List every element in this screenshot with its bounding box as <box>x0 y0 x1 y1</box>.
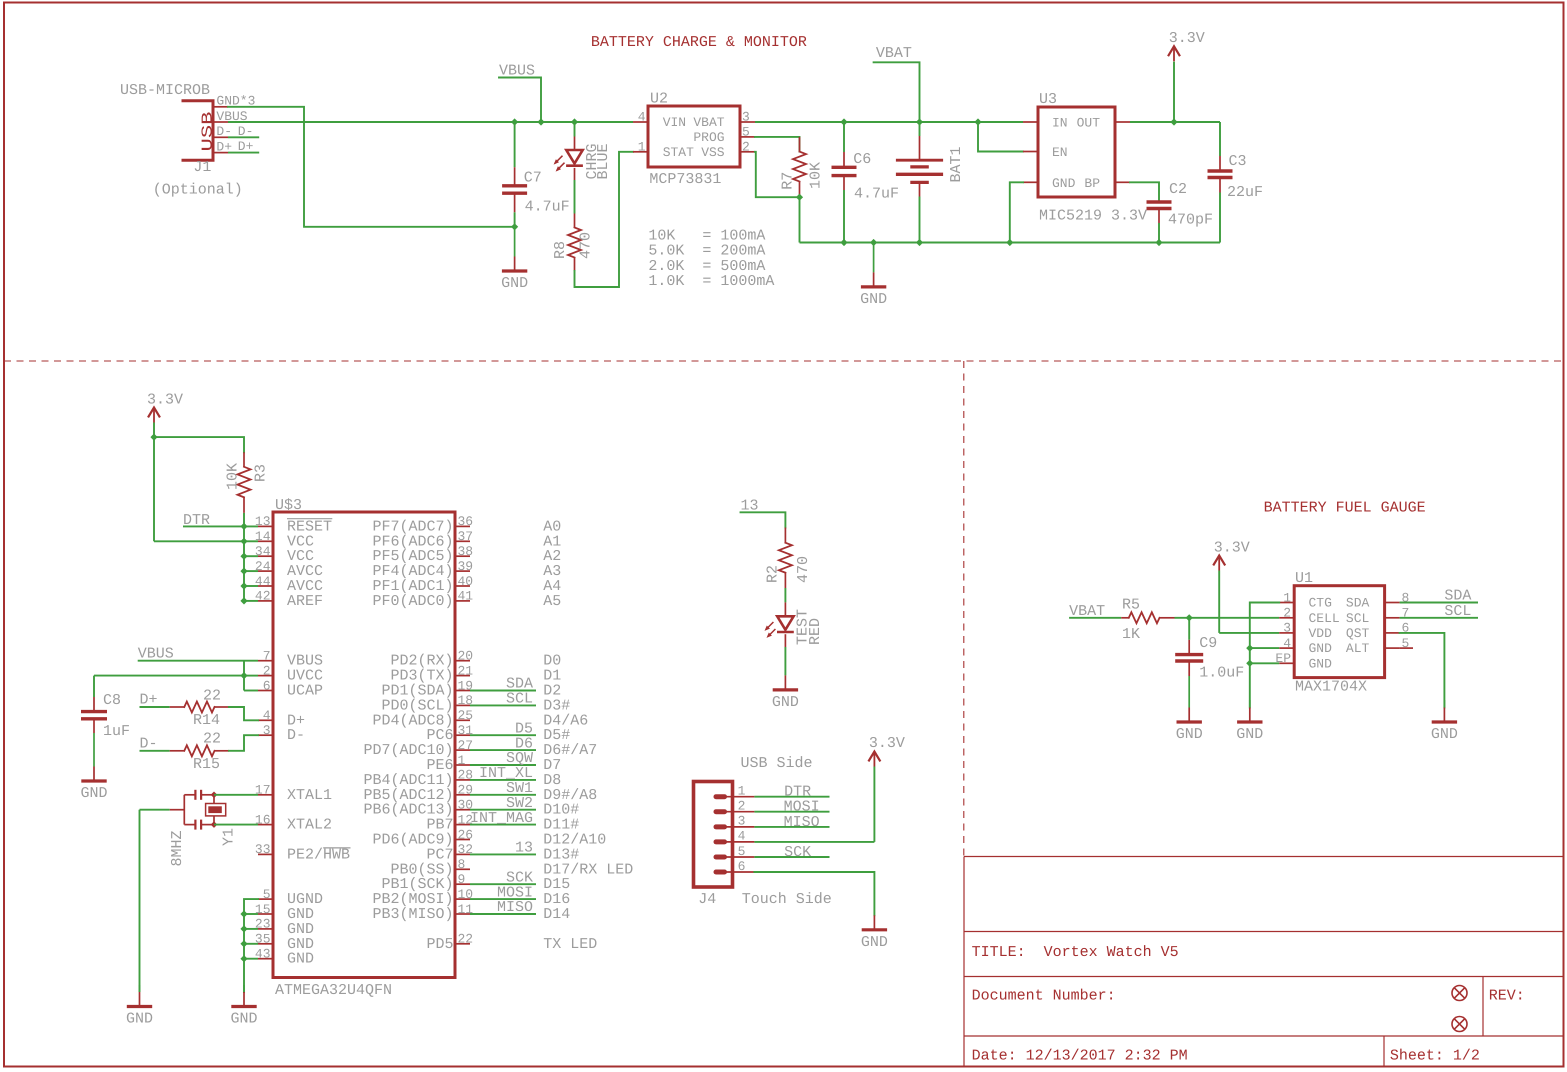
svg-text:6: 6 <box>738 859 746 874</box>
LED CHRG BLUE <box>574 122 576 137</box>
wire R8 to U2 STAT pin1 <box>575 152 634 287</box>
title block crossed circles <box>1452 986 1467 1001</box>
junction Y1 XTAL1 <box>211 792 218 799</box>
svg-text:USB-MICROB: USB-MICROB <box>120 82 210 99</box>
battery BAT1 <box>919 122 921 136</box>
svg-text:REV:: REV: <box>1489 988 1525 1005</box>
svg-text:5: 5 <box>263 887 271 902</box>
U$3 pin 10 PB2(MOSI) <box>455 898 470 900</box>
junction VBUS/C7 <box>511 118 518 125</box>
svg-text:CELL: CELL <box>1309 611 1340 626</box>
svg-text:13: 13 <box>515 840 533 857</box>
U$3 pin 39 PF4(ADC4) <box>455 570 470 572</box>
svg-text:MCP73831: MCP73831 <box>649 171 721 188</box>
svg-text:VSS: VSS <box>701 145 725 160</box>
svg-text:RED: RED <box>807 618 824 645</box>
U1 pin EP <box>1279 662 1294 664</box>
U$3 pin 15 GND <box>258 913 273 915</box>
svg-text:MISO: MISO <box>784 814 820 831</box>
crystal Y1 8MHZ <box>184 794 195 796</box>
svg-text:XTAL1: XTAL1 <box>287 787 332 804</box>
svg-text:EN: EN <box>1052 145 1068 160</box>
svg-text:R3: R3 <box>253 464 270 482</box>
junction 3.3V/R3 <box>150 434 157 441</box>
wire net 13 to R2 <box>741 512 786 527</box>
section divider vertical dashed <box>963 361 965 857</box>
ground below battery bus <box>873 243 875 273</box>
svg-text:GND: GND <box>861 934 888 951</box>
svg-text:INT_MAG: INT_MAG <box>470 810 533 827</box>
svg-text:20: 20 <box>458 649 474 664</box>
junction GND bus <box>240 925 247 932</box>
svg-text:VDD: VDD <box>1309 626 1333 641</box>
svg-text:USB: USB <box>199 112 216 152</box>
svg-text:1: 1 <box>1283 590 1291 605</box>
U$3 pin 41 PF0(ADC0) <box>455 600 470 602</box>
U3 pin EN <box>1023 151 1038 153</box>
U1 pin 2 <box>1279 617 1294 619</box>
RESET overline <box>287 518 332 520</box>
wire LED to ground <box>784 647 786 675</box>
junction Y1 XTAL2 <box>211 821 218 828</box>
junction 3.3V takeoff <box>1170 118 1177 125</box>
svg-text:MISO: MISO <box>497 899 533 916</box>
svg-text:IN: IN <box>1052 116 1068 131</box>
U$3 pin 27 PD7(ADC10) <box>455 749 470 751</box>
svg-text:U$3: U$3 <box>275 497 302 514</box>
svg-text:22uF: 22uF <box>1227 184 1263 201</box>
svg-text:3.3V: 3.3V <box>147 392 183 409</box>
svg-text:13: 13 <box>255 514 271 529</box>
svg-text:40: 40 <box>458 574 474 589</box>
svg-text:4: 4 <box>263 708 271 723</box>
resistor R5 1K <box>1121 617 1129 619</box>
svg-text:37: 37 <box>458 529 474 544</box>
svg-text:C6: C6 <box>853 151 871 168</box>
IC U3 MIC5219 <box>1038 107 1115 197</box>
title block outline <box>964 856 1563 858</box>
wire crystal common to ground <box>140 809 170 811</box>
wire U3 BP to C2 <box>1130 182 1159 201</box>
svg-text:R7: R7 <box>780 172 797 190</box>
U$3 pin 18 PD0(SCL) <box>455 704 470 706</box>
svg-text:QST: QST <box>1346 626 1370 641</box>
U$3 pin 11 PB3(MISO) <box>455 913 470 915</box>
wire U2 VSS to R7 bottom <box>755 152 800 197</box>
U$3 pin 24 AVCC <box>258 570 273 572</box>
svg-text:D-: D- <box>287 727 305 744</box>
resistor R15 22 <box>170 750 185 752</box>
svg-text:1.0K = 1000mA: 1.0K = 1000mA <box>648 273 774 290</box>
junction C7 bottom / GND*3 wire <box>511 223 518 230</box>
resistor R14 22 <box>170 706 185 708</box>
J1 pin D- <box>213 136 228 138</box>
J4 pin 4 <box>716 839 725 844</box>
U$3 pin 1 PE6 <box>455 764 470 766</box>
wire net 13 <box>470 853 536 855</box>
svg-text:R8: R8 <box>552 241 569 259</box>
svg-text:GND: GND <box>1176 726 1203 743</box>
svg-text:2: 2 <box>1283 606 1291 621</box>
junction C2 bottom <box>1155 239 1162 246</box>
U1 pin 7 <box>1385 617 1400 619</box>
svg-text:38: 38 <box>458 544 474 559</box>
U2 pin 5 PROG <box>740 136 755 138</box>
resistor R3 10K <box>243 452 245 467</box>
ground below C9 <box>1188 676 1190 708</box>
svg-text:5: 5 <box>738 844 746 859</box>
svg-text:GND: GND <box>860 291 887 308</box>
svg-text:R2: R2 <box>764 565 781 583</box>
svg-text:VBAT: VBAT <box>876 45 912 62</box>
svg-text:33: 33 <box>255 842 271 857</box>
svg-text:9: 9 <box>458 872 466 887</box>
svg-text:GND: GND <box>80 785 107 802</box>
U$3 pin 26 PD6(ADC9) <box>455 839 470 841</box>
junction GND bus <box>240 910 247 917</box>
wire LED to R8 <box>574 180 576 214</box>
svg-text:3: 3 <box>263 723 271 738</box>
svg-text:1uF: 1uF <box>103 723 130 740</box>
svg-text:USB Side: USB Side <box>741 755 813 772</box>
svg-text:D+: D+ <box>140 692 158 709</box>
U$3 pin 23 GND <box>258 928 273 930</box>
wire D+ to R14 <box>140 706 170 708</box>
capacitor C2 470pF <box>1158 201 1160 202</box>
junction VBUS/LED <box>571 118 578 125</box>
junction VCC bus <box>240 582 247 589</box>
svg-text:10K: 10K <box>224 463 241 490</box>
U$3 pin 36 PF7(ADC7) <box>455 525 470 527</box>
svg-text:J1: J1 <box>193 159 211 176</box>
svg-text:22: 22 <box>203 731 221 748</box>
svg-text:1: 1 <box>458 753 466 768</box>
svg-text:R5: R5 <box>1122 597 1140 614</box>
svg-text:C2: C2 <box>1169 181 1187 198</box>
ground below C8 <box>93 733 95 767</box>
J1 pin VBUS <box>213 121 228 123</box>
wire D- to R15 <box>140 750 170 752</box>
wire net MISO <box>470 913 536 915</box>
svg-text:SCL: SCL <box>506 691 533 708</box>
svg-text:D-: D- <box>238 124 254 139</box>
IC U$3 ATMEGA32U4QFN body <box>273 512 455 978</box>
svg-text:D14: D14 <box>543 906 570 923</box>
U$3 pin 34 VCC <box>258 555 273 557</box>
capacitor C9 1.0uF <box>1188 618 1190 640</box>
junction GND bus <box>240 940 247 947</box>
svg-text:MAX1704X: MAX1704X <box>1295 678 1367 695</box>
U$3 pin 8 PB0(SS) <box>455 868 470 870</box>
U$3 pin 20 PD2(RX) <box>455 660 470 662</box>
junction GND bus <box>240 955 247 962</box>
svg-text:GND: GND <box>287 951 314 968</box>
wire VBUS to pin7 <box>138 660 258 662</box>
wire net D6 <box>470 749 536 751</box>
connector J4 <box>694 782 733 888</box>
svg-text:SDA: SDA <box>1346 596 1370 611</box>
svg-text:Y1: Y1 <box>221 828 238 846</box>
svg-text:3.3V: 3.3V <box>1169 30 1205 47</box>
svg-text:Touch Side: Touch Side <box>742 891 832 908</box>
wire net INT_MAG <box>470 824 536 826</box>
wire R2 to LED <box>784 588 786 602</box>
wire net INT_XL <box>470 779 536 781</box>
resistor R2 470 <box>784 528 786 543</box>
svg-text:VBAT: VBAT <box>693 115 724 130</box>
svg-text:5: 5 <box>742 125 750 140</box>
U$3 pin 33 PE2/HWB <box>258 853 273 855</box>
junction C6 top <box>840 118 847 125</box>
wire net D5 <box>470 734 536 736</box>
svg-text:Date: 12/13/2017 2:32 PM: Date: 12/13/2017 2:32 PM <box>972 1048 1188 1065</box>
U1 pin 4 <box>1279 647 1294 649</box>
svg-text:22: 22 <box>203 687 221 704</box>
ground below TEST LED <box>784 674 786 676</box>
U$3 pin 30 PB6(ADC13) <box>455 809 470 811</box>
U$3 pin 17 XTAL1 <box>258 794 273 796</box>
wire U3 GND to bus <box>1010 182 1023 242</box>
IC U1 MAX1704X <box>1294 586 1384 678</box>
svg-text:41: 41 <box>458 589 474 604</box>
wire U2 VBAT to U3 IN <box>755 121 1023 123</box>
svg-text:MIC5219 3.3V: MIC5219 3.3V <box>1039 208 1147 225</box>
J4 pin 6 <box>716 870 725 875</box>
U1 pin 8 <box>1385 602 1400 604</box>
U$3 pin 9 PB1(SCK) <box>455 883 470 885</box>
wire R15 to pin D- <box>229 735 258 751</box>
wire net SQW <box>470 764 536 766</box>
wire DTR to RESET <box>183 525 258 527</box>
U2 pin 1 STAT <box>633 151 648 153</box>
ground below U1 <box>1249 700 1251 708</box>
svg-text:1: 1 <box>738 784 746 799</box>
HWB overline <box>323 847 350 849</box>
J1 pin GND*3 <box>213 106 228 108</box>
U$3 pin 19 PD1(SDA) <box>455 690 470 692</box>
U1 pin 3 <box>1279 632 1294 634</box>
U$3 pin 7 VBUS <box>258 660 273 662</box>
junction VCC bus <box>240 553 247 560</box>
wire net SDA (U1) <box>1400 602 1478 604</box>
U$3 pin 42 AREF <box>258 600 273 602</box>
J4 pin 5 <box>716 855 725 860</box>
U$3 pin 32 PC7 <box>455 853 470 855</box>
U$3 pin 5 UGND <box>258 898 273 900</box>
junction U1 GND pin4 <box>1246 645 1253 652</box>
svg-text:GND: GND <box>126 1011 153 1028</box>
svg-text:470pF: 470pF <box>1168 212 1213 229</box>
U1 pin 5 <box>1385 647 1400 649</box>
junction VCC bus <box>240 538 247 545</box>
svg-text:GND: GND <box>1431 726 1458 743</box>
svg-text:26: 26 <box>458 827 474 842</box>
junction BAT1 bottom <box>916 239 923 246</box>
svg-text:ATMEGA32U4QFN: ATMEGA32U4QFN <box>275 982 392 999</box>
wire U2 PROG to R7 <box>755 137 800 152</box>
U$3 pin 2 UVCC <box>258 675 273 677</box>
junction VCC bus <box>240 597 247 604</box>
svg-text:Sheet: 1/2: Sheet: 1/2 <box>1390 1048 1480 1065</box>
junction C6 bottom <box>840 239 847 246</box>
svg-text:SCK: SCK <box>784 844 811 861</box>
wire net MISO (J4 pin3) <box>754 826 829 828</box>
resistor R7 10K <box>799 137 801 152</box>
U1 pin 5 stub extension <box>1400 647 1413 649</box>
U$3 pin 31 PC6 <box>455 734 470 736</box>
supply 3.3V (MCU) <box>149 408 160 417</box>
U$3 pin 16 XTAL2 <box>258 824 273 826</box>
supply 3.3V (top right) <box>1173 62 1175 122</box>
junction VBAT/battery <box>916 118 923 125</box>
svg-text:4: 4 <box>1283 636 1291 651</box>
wire VCC bus vertical <box>243 526 245 601</box>
svg-text:TITLE: Vortex Watch V5: TITLE: Vortex Watch V5 <box>972 944 1179 961</box>
svg-text:BATTERY FUEL GAUGE: BATTERY FUEL GAUGE <box>1264 500 1426 517</box>
svg-text:ALT: ALT <box>1346 641 1370 656</box>
svg-text:8MHZ: 8MHZ <box>169 830 186 866</box>
svg-text:GND: GND <box>772 694 799 711</box>
svg-text:3: 3 <box>738 814 746 829</box>
junction VBUS label <box>537 118 544 125</box>
svg-text:VIN: VIN <box>663 115 686 130</box>
svg-text:7: 7 <box>263 649 271 664</box>
capacitor C8 1uF <box>93 676 95 697</box>
svg-text:C8: C8 <box>103 692 121 709</box>
svg-text:D-: D- <box>140 735 158 752</box>
U$3 pin 38 PF5(ADC5) <box>455 555 470 557</box>
U$3 pin 25 PD4(ADC8) <box>455 719 470 721</box>
svg-text:470: 470 <box>578 232 595 259</box>
junction R7 bottom <box>796 194 803 201</box>
svg-text:BAT1: BAT1 <box>948 146 965 182</box>
svg-text:1: 1 <box>638 140 646 155</box>
wire net SCK <box>470 883 536 885</box>
svg-text:GND: GND <box>1052 176 1076 191</box>
svg-text:2: 2 <box>738 799 746 814</box>
wire EN branch <box>978 122 1023 152</box>
svg-text:(Optional): (Optional) <box>153 182 243 199</box>
junction VCC bus <box>240 523 247 530</box>
svg-text:PB3(MISO): PB3(MISO) <box>372 906 453 923</box>
svg-text:2: 2 <box>742 140 750 155</box>
svg-text:U3: U3 <box>1039 91 1057 108</box>
svg-text:4.7uF: 4.7uF <box>854 185 899 202</box>
wire net SW1 <box>470 794 536 796</box>
U2 pin 2 VSS <box>740 151 755 153</box>
svg-text:CTG: CTG <box>1309 596 1332 611</box>
wire MCU ground bus <box>244 899 258 992</box>
svg-text:A5: A5 <box>543 593 561 610</box>
U$3 pin 14 VCC <box>258 540 273 542</box>
J1 pin D+ <box>213 152 228 154</box>
svg-text:GND: GND <box>230 1011 257 1028</box>
svg-text:1.0uF: 1.0uF <box>1199 665 1244 682</box>
svg-text:36: 36 <box>458 514 474 529</box>
wire GND*3 net to C7 ground <box>228 107 515 227</box>
svg-text:OUT: OUT <box>1077 116 1101 131</box>
wire net D+ with label <box>228 152 259 154</box>
wire net D- with label <box>228 136 259 138</box>
U3 pin OUT <box>1115 121 1130 123</box>
svg-text:2: 2 <box>263 663 271 678</box>
svg-text:C7: C7 <box>524 169 542 186</box>
junction VCC bus <box>240 568 247 575</box>
svg-text:3.3V: 3.3V <box>869 735 905 752</box>
U$3 pin 13 RESET <box>258 525 273 527</box>
wire U1 QST to ground <box>1400 633 1445 708</box>
U$3 pin 44 AVCC <box>258 585 273 587</box>
U2 pin 4 VIN <box>633 121 648 123</box>
svg-text:XTAL2: XTAL2 <box>287 817 332 834</box>
svg-text:22: 22 <box>458 932 474 947</box>
svg-text:TX LED: TX LED <box>543 936 597 953</box>
wire XTAL2 <box>214 824 258 826</box>
svg-text:10K: 10K <box>808 162 825 189</box>
ground below QST <box>1443 700 1445 708</box>
LED TEST RED <box>784 602 786 616</box>
U1 pin 1 <box>1279 602 1294 604</box>
svg-text:3: 3 <box>742 110 750 125</box>
junction U1 EP <box>1246 660 1253 667</box>
svg-text:39: 39 <box>458 559 474 574</box>
wire VBUS net (J1 to U2 pin4) <box>228 121 633 123</box>
svg-text:R14: R14 <box>193 712 220 729</box>
capacitor C7 <box>514 122 516 167</box>
svg-text:Document Number:: Document Number: <box>972 988 1116 1005</box>
U3 pin GND <box>1023 181 1038 183</box>
U$3 pin 6 UCAP <box>258 690 273 692</box>
wire XTAL1 <box>214 794 258 796</box>
J4 pin 1 <box>716 794 725 799</box>
wire R5 to U1 CELL <box>1175 617 1280 619</box>
U2 pin 3 VBAT <box>740 121 755 123</box>
svg-text:J4: J4 <box>698 891 716 908</box>
wire U3 OUT / 3.3V / C3 <box>1130 121 1220 123</box>
svg-text:PROG: PROG <box>693 130 724 145</box>
U3 pin BP <box>1115 181 1130 183</box>
wire R14 to pin D+ <box>229 707 258 720</box>
wire ground bus <box>800 242 1221 244</box>
capacitor C3 22uF <box>1219 122 1221 156</box>
wire net MOSI <box>470 898 536 900</box>
wire net DTR (J4 pin1) <box>754 796 829 798</box>
wire 3.3V to VCC pin14 <box>154 540 244 542</box>
svg-text:BP: BP <box>1084 176 1100 191</box>
svg-text:C9: C9 <box>1199 635 1217 652</box>
U$3 pin 43 GND <box>258 958 273 960</box>
capacitor C6 <box>843 122 845 152</box>
svg-text:STAT: STAT <box>663 145 694 160</box>
U$3 pin 37 PF6(ADC6) <box>455 540 470 542</box>
wire VBAT to R5 <box>1069 617 1121 619</box>
svg-text:6: 6 <box>263 678 271 693</box>
section divider horizontal dashed <box>4 360 1563 362</box>
U$3 pin 3 D- <box>258 734 273 736</box>
U$3 pin 29 PB5(ADC12) <box>455 794 470 796</box>
svg-text:GND: GND <box>1309 656 1333 671</box>
U$3 pin 22 PD5 <box>455 943 470 945</box>
U$3 pin 40 PF1(ADC1) <box>455 585 470 587</box>
svg-text:U1: U1 <box>1295 570 1313 587</box>
wire J4 pin6 to ground <box>754 872 874 915</box>
wire net SCL (U1) <box>1400 617 1478 619</box>
J4 pin 3 <box>716 824 725 829</box>
J4 pin 2 <box>716 809 725 814</box>
svg-text:21: 21 <box>458 663 474 678</box>
wire R7 junction down to ground bus <box>799 197 801 242</box>
junction UVCC <box>240 672 247 679</box>
